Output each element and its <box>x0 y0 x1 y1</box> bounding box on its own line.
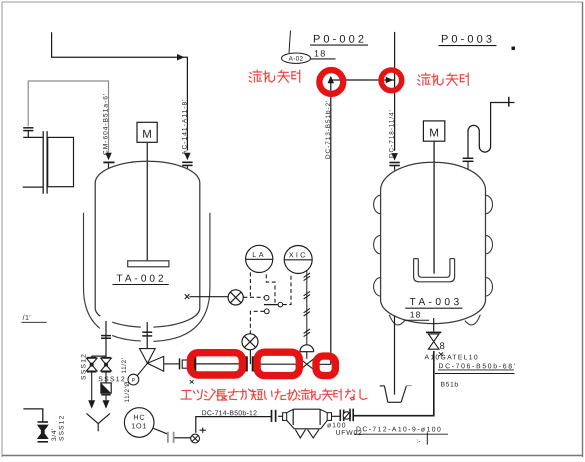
label 11/2 a <box>121 358 128 374</box>
agitator TA-002 shaft and paddle <box>128 142 169 266</box>
label 8 <box>439 341 444 352</box>
svg-text:DC-713-B51b-2': DC-713-B51b-2' <box>325 100 332 159</box>
svg-text:11/2': 11/2' <box>121 358 128 374</box>
label DC-713-B51b-2 <box>325 100 332 159</box>
label DC-714-B50b-12 <box>202 410 258 417</box>
orifice plate assembly <box>340 409 353 422</box>
svg-text:HC: HC <box>133 413 145 422</box>
svg-text:18: 18 <box>410 310 422 320</box>
label SSS12 horizontal <box>98 376 126 383</box>
svg-text:TA-003: TA-003 <box>409 297 462 308</box>
svg-text:8: 8 <box>439 341 444 352</box>
node P0-002 line label <box>310 34 368 59</box>
hose coupling <box>180 356 196 371</box>
red rect no-arrow 2 <box>257 352 299 375</box>
mark x small <box>439 352 443 356</box>
label DC-718-11/4 <box>389 109 396 158</box>
label SSS12 v4 <box>58 414 65 441</box>
pipe segment S1 <box>196 356 246 371</box>
svg-text:3/4': 3/4' <box>51 428 58 441</box>
off-page connector A-02 <box>282 31 311 64</box>
tank TA-003 body <box>381 162 486 323</box>
pipe DC-718-11/4 drop <box>389 32 399 171</box>
label DC-712-A10-9 <box>354 426 448 434</box>
red text flow-arrow right <box>418 73 469 85</box>
valve V1 SSS12 <box>86 358 97 372</box>
svg-text:DC-714-B50b-12: DC-714-B50b-12 <box>202 410 258 417</box>
svg-text:18: 18 <box>314 49 326 59</box>
pipe HC101 to valve <box>153 428 191 443</box>
svg-text:1O1: 1O1 <box>131 421 147 430</box>
red text edge-too-short <box>181 389 367 400</box>
valve V4 3/4 SSS12 <box>38 422 49 442</box>
label AC-141-A11-8 <box>182 98 189 155</box>
svg-text:DC-718-11/4': DC-718-11/4' <box>389 109 396 158</box>
red rect no-arrow 1 <box>190 353 242 375</box>
instrument HC101 <box>124 408 154 438</box>
pipe DC-713-B51b-2 riser <box>328 76 395 365</box>
pipe seal loop <box>463 97 515 170</box>
signal dashed X1 to switch <box>243 296 264 298</box>
pipe AC-141-A11-8 <box>52 32 193 169</box>
valve HV1 globe <box>191 428 206 443</box>
tap line to vent X1 <box>185 294 228 299</box>
svg-text:CM-604-B51a-6': CM-604-B51a-6' <box>103 93 110 155</box>
nozzle TA-002 bottom-center <box>142 322 152 349</box>
vent symbol X2 <box>242 334 258 350</box>
nozzle TA-003 bottom-center <box>426 318 441 332</box>
node P0-003 line label <box>439 34 516 50</box>
svg-text::-: :- <box>416 438 420 445</box>
red circle flow-arrow 1 <box>319 70 343 94</box>
svg-text:P0-003: P0-003 <box>441 34 495 46</box>
svg-text:P0-002: P0-002 <box>313 34 367 46</box>
drain from X2 <box>249 350 251 364</box>
agitator TA-003 anchor impeller <box>414 259 455 282</box>
switch contact node B <box>278 302 283 307</box>
control valve CV1 <box>300 345 314 370</box>
signal dashed LA-right <box>266 274 275 303</box>
svg-text:M: M <box>142 129 152 141</box>
red circle flow-arrow 2 <box>381 70 402 91</box>
tank TA-002 jacket <box>84 213 210 346</box>
label CM-604-B51a-6 <box>103 93 110 155</box>
separator screen SEP1 <box>278 409 340 438</box>
svg-text:DC-712-A10-9-ø100: DC-712-A10-9-ø100 <box>356 426 442 433</box>
switch contact node C <box>264 309 269 314</box>
valve V3 gate <box>428 334 439 349</box>
svg-text:ø100: ø100 <box>327 422 347 429</box>
label A10GATEL10 <box>424 354 478 361</box>
sample point bubble <box>128 374 139 385</box>
pipe AV1 outlet <box>164 363 179 365</box>
tank TA-002 body <box>95 161 200 327</box>
svg-text:LA: LA <box>252 250 266 259</box>
vent symbol X1 <box>228 290 243 305</box>
pipe tee below left nozzle <box>92 356 106 358</box>
svg-text:DC-706-B50b-68': DC-706-B50b-68' <box>438 363 516 370</box>
label phi100 <box>327 422 347 429</box>
label 11/2 b <box>124 381 131 402</box>
svg-text:B51b: B51b <box>440 382 458 389</box>
red text flow-arrow left <box>249 70 300 82</box>
mark drain tick <box>416 432 427 445</box>
pipe CM-604-B51a-6 <box>28 81 114 169</box>
pipe TA-003 drain to funnel <box>394 316 396 395</box>
agitator M1 motor <box>137 122 157 142</box>
pipe DC-712 run <box>353 351 434 416</box>
svg-text:11/2'Ø: 11/2'Ø <box>124 381 131 402</box>
instrument LA <box>246 245 273 272</box>
funnel F1 <box>380 386 412 403</box>
label TA-003 <box>405 297 462 308</box>
label DC-706-B50b-68 <box>435 363 517 373</box>
flange joint S1-S2 <box>252 356 254 371</box>
label B51b <box>440 382 458 389</box>
label SSS12 vertical <box>81 353 88 380</box>
condenser E-1 <box>23 128 74 194</box>
nozzle TA-002 bottom-left <box>101 321 111 357</box>
svg-text:SSS12: SSS12 <box>98 376 126 383</box>
signal dashed LA-left <box>249 272 251 296</box>
svg-text:SSS12: SSS12 <box>58 414 65 441</box>
signal dashed C to vent X2 <box>250 311 264 333</box>
agitator M2 motor <box>423 121 444 141</box>
pipe segment S3 <box>314 363 331 365</box>
svg-text:A-02: A-02 <box>289 56 304 63</box>
spectacle blind closed <box>101 373 111 409</box>
switch contact node A <box>264 295 269 300</box>
instrument XIC <box>284 246 312 274</box>
pipe 3/4 branch <box>23 409 42 422</box>
valve V2 SSS12 <box>101 358 112 372</box>
switch contact bar <box>264 304 278 306</box>
label 1-inch stub <box>21 315 46 323</box>
pipe DC-714-B50b-12 <box>196 410 276 433</box>
label UFW02 <box>336 430 363 437</box>
svg-text:SSS12: SSS12 <box>81 353 88 380</box>
agitator TA-003 shaft <box>433 141 435 273</box>
svg-text:A10GATEL10: A10GATEL10 <box>424 354 478 361</box>
pipe segment S2 <box>254 363 300 365</box>
red rect no-arrow 3 <box>316 356 335 376</box>
svg-text:XIC: XIC <box>289 250 308 259</box>
svg-text:P: P <box>132 378 136 384</box>
drain line V1 <box>88 373 95 409</box>
label 3/4 <box>51 428 58 441</box>
svg-text:TA-002: TA-002 <box>116 274 166 285</box>
svg-text:M: M <box>429 127 439 139</box>
label TA-002 <box>113 274 169 285</box>
mark x-deg <box>190 380 194 383</box>
signal dashed to XIC <box>283 273 291 304</box>
tank TA-003 jacket nozzle bumps <box>374 195 493 325</box>
funnel drain Y <box>87 413 111 431</box>
angle valve AV1 <box>137 349 164 377</box>
svg-text:/1': /1' <box>23 315 31 322</box>
svg-text:AC-141-A11-8': AC-141-A11-8' <box>182 98 189 155</box>
label TA-003 18 <box>404 310 429 321</box>
signal electric XIC to CV <box>304 271 310 345</box>
